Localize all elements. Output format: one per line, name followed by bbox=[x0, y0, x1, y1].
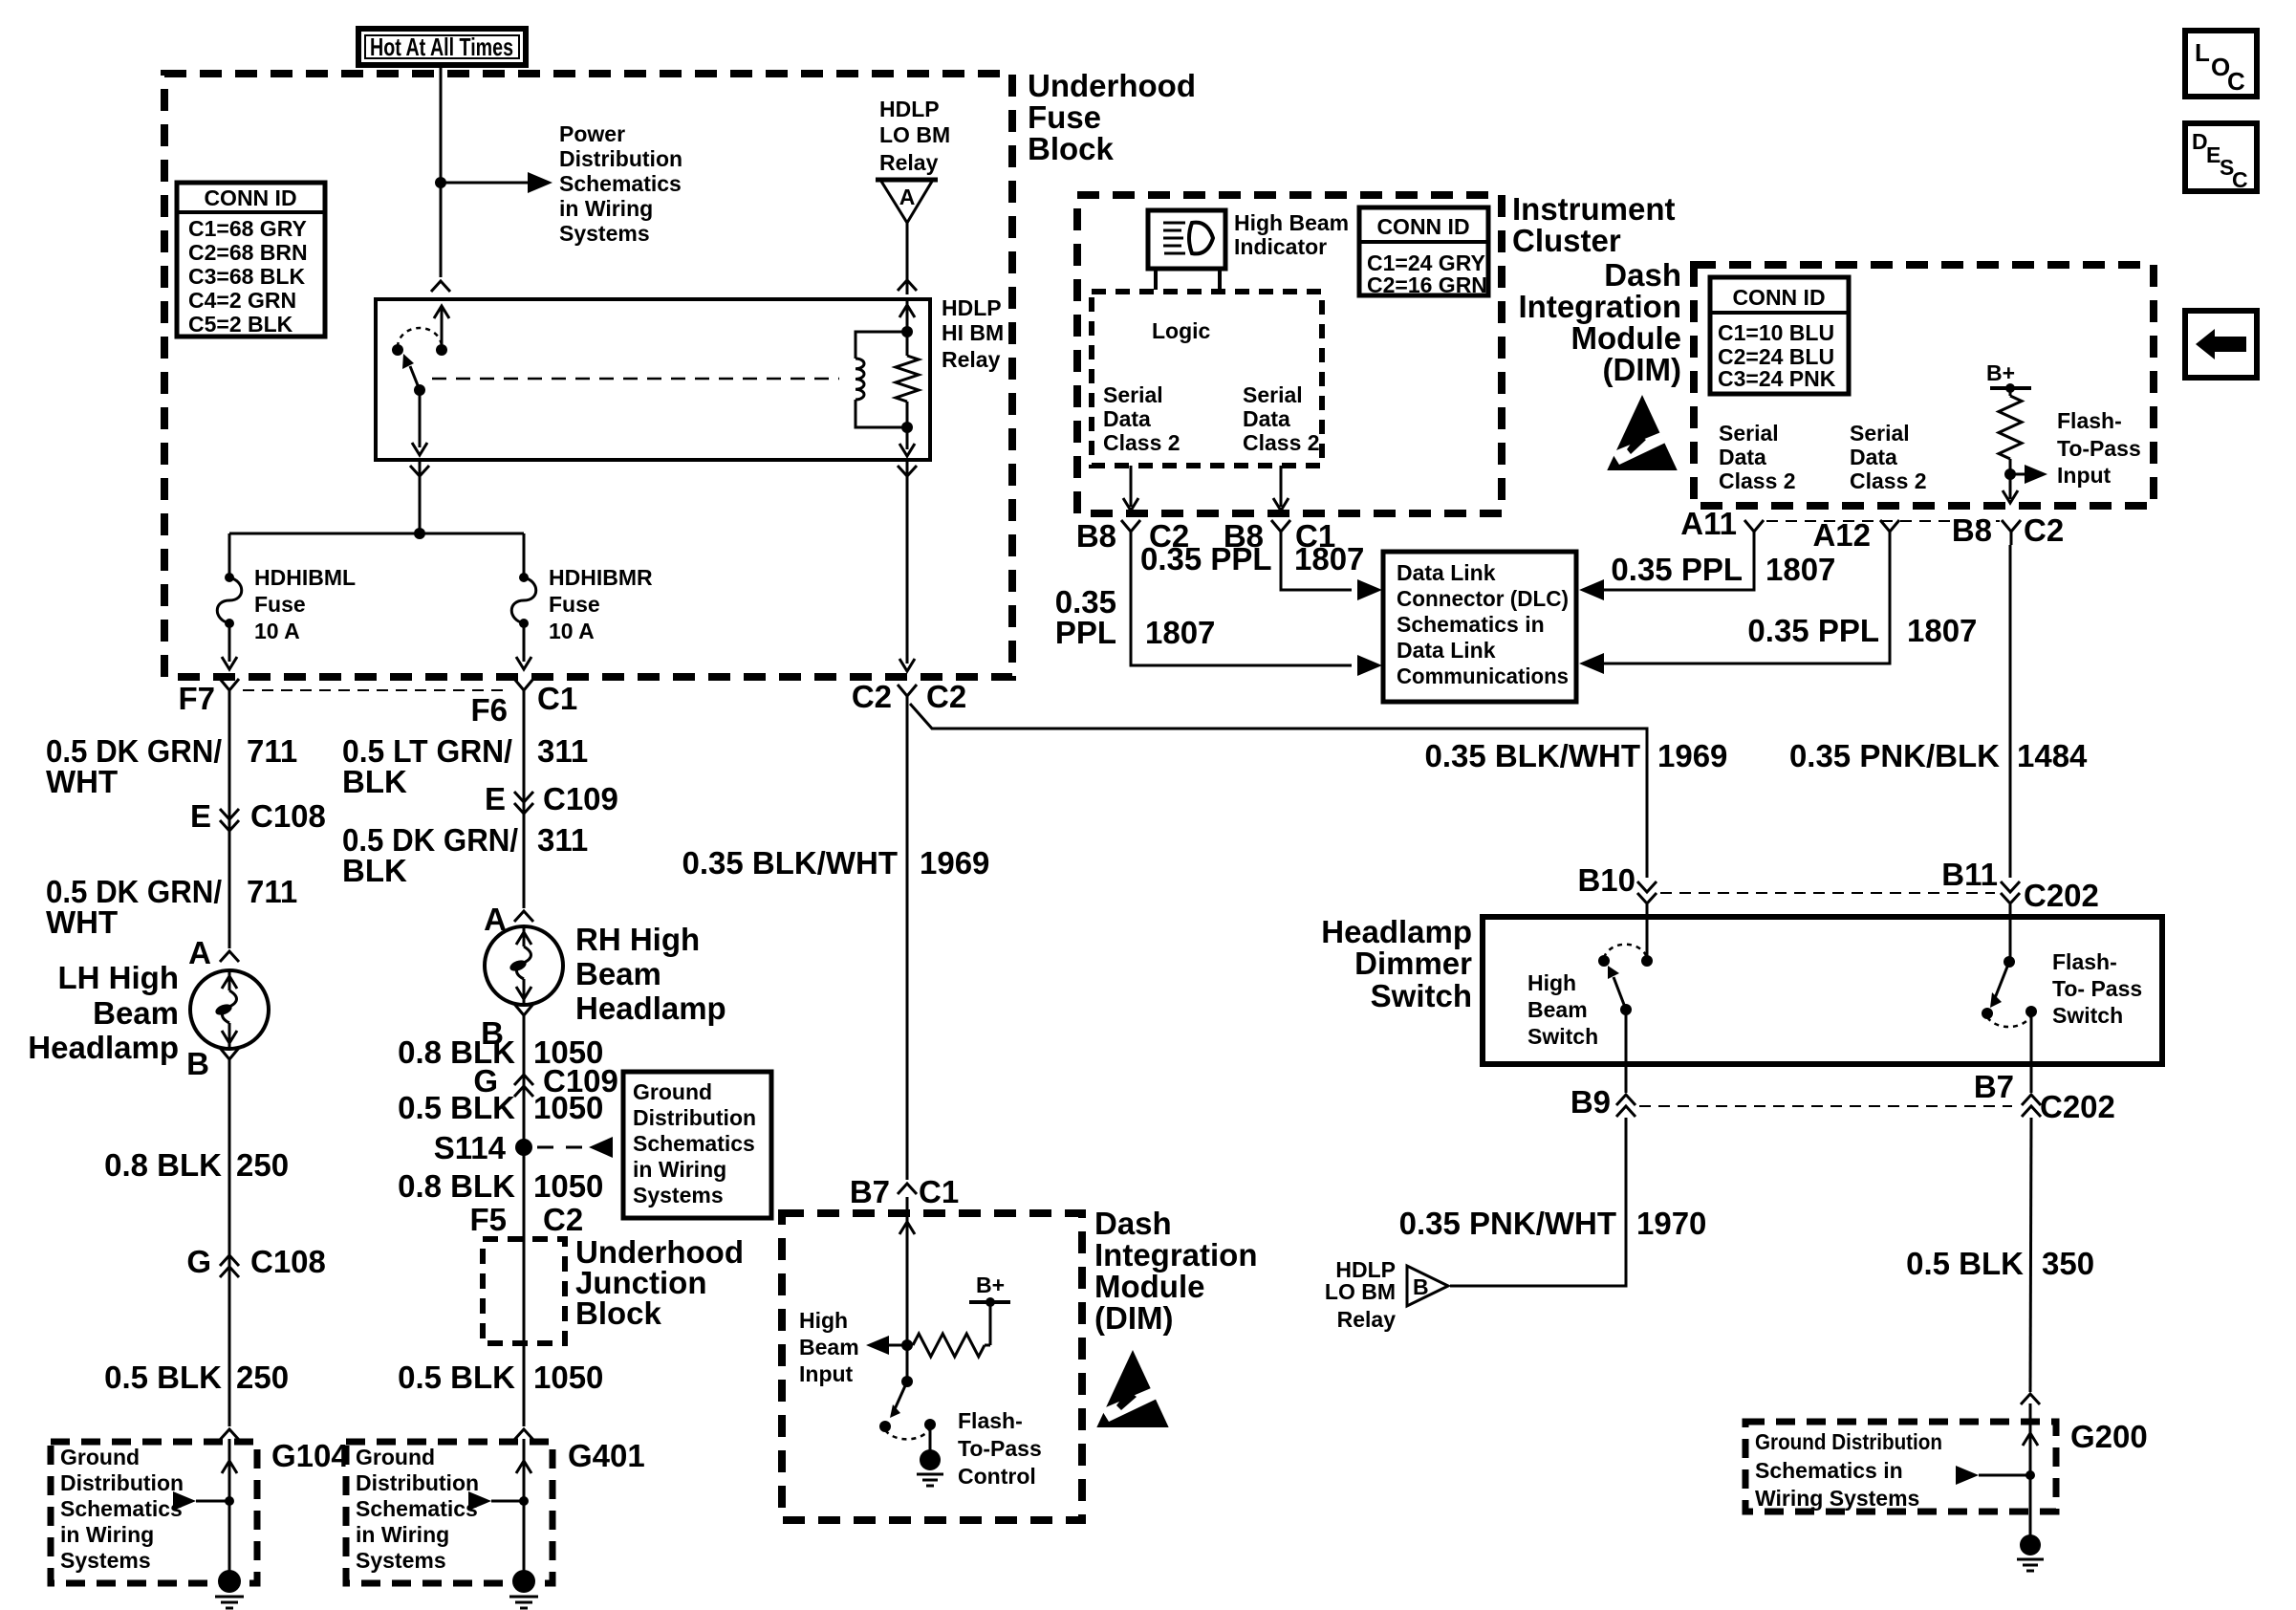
svg-text:High Beam: High Beam bbox=[1234, 210, 1349, 235]
connector F6/C1 (female) bbox=[514, 679, 533, 690]
svg-text:1484: 1484 bbox=[2017, 738, 2088, 773]
Hot At All Times tag bbox=[358, 29, 526, 65]
flash-to-pass switch pivot dot bbox=[901, 1376, 913, 1387]
Ground Distribution dashed box (G200) bbox=[1745, 1422, 2056, 1512]
ground wire (G401) bbox=[523, 1439, 526, 1576]
svg-text:C2: C2 bbox=[852, 679, 892, 714]
connector A12 (DIM) bbox=[1880, 520, 1899, 532]
svg-text:Beam: Beam bbox=[1527, 997, 1588, 1022]
svg-text:Class 2: Class 2 bbox=[1719, 468, 1796, 493]
svg-text:Class 2: Class 2 bbox=[1103, 430, 1180, 455]
svg-text:0.35 PNK/BLK: 0.35 PNK/BLK bbox=[1789, 738, 2000, 773]
svg-text:B: B bbox=[186, 1046, 209, 1081]
svg-text:in Wiring: in Wiring bbox=[559, 196, 653, 221]
connector C2/C2 (fuse block output) bbox=[898, 685, 917, 696]
svg-text:G401: G401 bbox=[568, 1438, 645, 1473]
junction dot bottom of coil/resistor bbox=[901, 422, 913, 433]
junction dot top of coil/resistor bbox=[901, 326, 913, 337]
ground stub (flash-to-pass control) bbox=[929, 1425, 932, 1450]
CONN ID table (Instrument Cluster) bbox=[1359, 207, 1488, 295]
svg-text:Ground Distribution: Ground Distribution bbox=[1755, 1429, 1942, 1454]
svg-text:Beam: Beam bbox=[93, 995, 179, 1031]
wire: fuse feed branch bbox=[229, 533, 524, 535]
back-arrow box bbox=[2185, 311, 2257, 378]
svg-text:0.8 BLK: 0.8 BLK bbox=[398, 1168, 515, 1204]
svg-text:Distribution: Distribution bbox=[60, 1470, 184, 1495]
svg-text:Flash-: Flash- bbox=[958, 1408, 1023, 1433]
fuse HDHIBML bbox=[225, 573, 234, 582]
svg-text:Switch: Switch bbox=[1371, 978, 1472, 1013]
svg-text:G104: G104 bbox=[271, 1438, 349, 1473]
wire: relay A to HI BM relay box bbox=[906, 223, 909, 294]
arrow to Power Distribution Schematics bbox=[528, 172, 552, 193]
svg-text:Distribution: Distribution bbox=[559, 146, 682, 171]
svg-text:350: 350 bbox=[2042, 1246, 2094, 1281]
svg-text:0.35 PPL: 0.35 PPL bbox=[1140, 541, 1272, 577]
wire: relay switch output down bbox=[419, 390, 422, 447]
wire: DIM A11 serial data to DLC bbox=[1579, 579, 1604, 600]
wire: switch output to fuse branch bbox=[419, 460, 422, 533]
svg-text:Module: Module bbox=[1571, 320, 1681, 356]
svg-text:in Wiring: in Wiring bbox=[60, 1522, 154, 1547]
svg-text:BLK: BLK bbox=[342, 853, 407, 888]
svg-text:Ground: Ground bbox=[60, 1445, 140, 1469]
svg-text:(DIM): (DIM) bbox=[1094, 1300, 1173, 1336]
svg-text:1807: 1807 bbox=[1145, 615, 1215, 650]
ground terminal G200 bbox=[2020, 1534, 2041, 1556]
svg-text:1050: 1050 bbox=[533, 1090, 603, 1125]
svg-text:C: C bbox=[2227, 67, 2245, 96]
svg-text:WHT: WHT bbox=[46, 904, 118, 940]
wire: serial data to B8/C1 bbox=[1280, 466, 1283, 507]
svg-text:Module: Module bbox=[1094, 1269, 1204, 1304]
svg-text:0.35 BLK/WHT: 0.35 BLK/WHT bbox=[1424, 738, 1640, 773]
Dash Integration Module dashed box (bottom) bbox=[782, 1213, 1082, 1520]
svg-text:0.5 BLK: 0.5 BLK bbox=[1906, 1246, 2024, 1281]
svg-text:Fuse: Fuse bbox=[1028, 99, 1101, 135]
svg-text:Systems: Systems bbox=[60, 1548, 151, 1573]
flash-to-pass switch contact dots bbox=[1982, 1008, 1993, 1019]
Underhood Junction Block dashed box bbox=[483, 1239, 565, 1343]
svg-text:Data: Data bbox=[1719, 445, 1766, 469]
connector chevron B7/C1 bbox=[898, 1184, 917, 1194]
svg-text:Distribution: Distribution bbox=[633, 1105, 756, 1130]
svg-text:Input: Input bbox=[799, 1361, 854, 1386]
connector A11 (DIM) bbox=[1744, 520, 1764, 532]
svg-text:1807: 1807 bbox=[1765, 552, 1835, 587]
connector C108/C109 interface dashed line bbox=[243, 689, 510, 691]
svg-text:Ground: Ground bbox=[356, 1445, 435, 1469]
svg-text:Schematics in: Schematics in bbox=[1755, 1458, 1903, 1483]
svg-text:RH High: RH High bbox=[575, 922, 700, 957]
svg-text:HDHIBML: HDHIBML bbox=[254, 565, 356, 590]
svg-text:1970: 1970 bbox=[1636, 1206, 1706, 1241]
wire: 0.35 BLK/WHT 1969 to DIM B7 bbox=[906, 709, 909, 1180]
svg-text:Headlamp: Headlamp bbox=[1321, 914, 1472, 949]
relay switch fixed contact dot bbox=[436, 344, 447, 356]
wire: branch to headlamp dimmer switch B10 bbox=[910, 704, 1647, 878]
svg-text:C2=16 GRN: C2=16 GRN bbox=[1367, 272, 1487, 297]
svg-text:B7: B7 bbox=[850, 1174, 890, 1209]
wire: HDHIBMR fuse output bbox=[523, 623, 526, 662]
svg-text:Flash-: Flash- bbox=[2052, 949, 2117, 974]
svg-text:250: 250 bbox=[236, 1147, 289, 1183]
relay coil branch wiring bbox=[856, 332, 907, 359]
svg-text:Dash: Dash bbox=[1094, 1206, 1172, 1241]
wire: 0.35 PNK/BLK 1484 to dimmer switch B11 bbox=[2009, 545, 2012, 878]
svg-text:1969: 1969 bbox=[920, 845, 989, 881]
svg-text:C1: C1 bbox=[537, 681, 577, 716]
svg-text:C1: C1 bbox=[919, 1174, 959, 1209]
svg-text:Relay: Relay bbox=[942, 347, 1001, 372]
dashed travel arc (flash-to-pass control) bbox=[885, 1428, 930, 1439]
fuse HDHIBMR bbox=[519, 573, 529, 582]
svg-text:711: 711 bbox=[247, 733, 297, 769]
svg-text:Integration: Integration bbox=[1094, 1237, 1258, 1273]
wire: flash-to-pass switch output bbox=[2030, 1012, 2033, 1093]
relay switch pivot dot bbox=[414, 384, 425, 396]
Headlamp Dimmer Switch box bbox=[1483, 917, 2162, 1064]
HDLP LO BM Relay terminal A triangle bbox=[880, 180, 933, 223]
svg-text:Dash: Dash bbox=[1604, 257, 1681, 293]
svg-text:0.5 BLK: 0.5 BLK bbox=[104, 1360, 222, 1395]
connector C202 dashed line (top) bbox=[1660, 892, 1995, 894]
svg-text:Switch: Switch bbox=[2052, 1003, 2123, 1028]
connector chevron at RH headlamp A bbox=[514, 911, 533, 922]
svg-text:LO BM: LO BM bbox=[1325, 1279, 1396, 1304]
svg-text:0.35 PPL: 0.35 PPL bbox=[1611, 552, 1743, 587]
connector chevron above G200 bbox=[2021, 1394, 2040, 1404]
DESC reference box bbox=[2185, 123, 2257, 191]
svg-text:Hot At All Times: Hot At All Times bbox=[370, 33, 513, 61]
svg-text:Systems: Systems bbox=[559, 221, 650, 246]
wire: serial data to B8/C2 bbox=[1130, 466, 1133, 507]
svg-text:0.5 BLK: 0.5 BLK bbox=[398, 1360, 515, 1395]
svg-text:Data: Data bbox=[1243, 406, 1290, 431]
wire: HDHIBML fuse output bbox=[228, 623, 231, 662]
splice S114 bbox=[515, 1139, 532, 1156]
Underhood Fuse Block dashed enclosure bbox=[164, 74, 1012, 677]
svg-text:Beam: Beam bbox=[575, 956, 661, 991]
Dash Integration Module dashed box (right) bbox=[1694, 265, 2154, 506]
svg-text:C109: C109 bbox=[543, 781, 618, 816]
svg-text:C2: C2 bbox=[926, 679, 966, 714]
svg-text:1050: 1050 bbox=[533, 1168, 603, 1204]
svg-text:Indicator: Indicator bbox=[1234, 234, 1327, 259]
svg-text:F6: F6 bbox=[470, 692, 508, 728]
svg-text:Serial: Serial bbox=[1850, 421, 1910, 446]
svg-text:C108: C108 bbox=[250, 1244, 326, 1279]
wire: DIM A12 serial data to DLC bbox=[1579, 653, 1604, 674]
svg-text:C5=2 BLK: C5=2 BLK bbox=[188, 312, 293, 337]
svg-text:C3=68 BLK: C3=68 BLK bbox=[188, 264, 305, 289]
svg-text:A: A bbox=[188, 935, 211, 970]
relay switch NO contact dot bbox=[392, 344, 403, 356]
svg-text:B8: B8 bbox=[1952, 512, 1992, 548]
HDLP LO BM Relay terminal B triangle bbox=[1407, 1266, 1448, 1306]
connector at LH headlamp B bbox=[220, 1048, 239, 1059]
svg-text:C2: C2 bbox=[2024, 512, 2064, 548]
dashed travel arc of relay switch bbox=[398, 328, 442, 347]
svg-text:Schematics in: Schematics in bbox=[1397, 612, 1545, 637]
wire: 0.35 PPL 1807 from cluster C2 to DLC bbox=[1131, 545, 1352, 665]
svg-text:Class 2: Class 2 bbox=[1243, 430, 1320, 455]
svg-text:Fuse: Fuse bbox=[254, 592, 306, 617]
svg-text:A: A bbox=[899, 185, 916, 209]
wire: RH headlamp ground leg bbox=[523, 1029, 526, 1426]
connector B8/C2 (DIM) bbox=[2002, 520, 2021, 532]
wire: 0.8 BLK 250 / 0.5 BLK 250 ground leg bbox=[228, 1073, 231, 1426]
connector B9 (C202) bbox=[1616, 1095, 1635, 1105]
svg-text:Integration: Integration bbox=[1519, 289, 1682, 324]
svg-text:A12: A12 bbox=[1812, 517, 1871, 553]
Ground Distribution Schematics note box (S114) bbox=[623, 1072, 771, 1218]
svg-text:B: B bbox=[1413, 1274, 1429, 1299]
svg-text:Schematics: Schematics bbox=[633, 1131, 755, 1156]
svg-text:Logic: Logic bbox=[1152, 318, 1211, 343]
svg-text:Serial: Serial bbox=[1103, 382, 1163, 407]
wire: drop to HDHIBMR fuse bbox=[523, 533, 526, 577]
svg-text:B8: B8 bbox=[1076, 518, 1116, 554]
connector B8/C2 (cluster) bbox=[1121, 520, 1140, 532]
svg-text:C202: C202 bbox=[2024, 878, 2099, 913]
svg-text:10 A: 10 A bbox=[254, 619, 300, 643]
svg-text:1807: 1807 bbox=[1294, 541, 1364, 577]
svg-text:CONN ID: CONN ID bbox=[204, 185, 296, 210]
high beam switch contact dots bbox=[1641, 955, 1653, 967]
svg-text:Distribution: Distribution bbox=[356, 1470, 479, 1495]
RH High Beam Headlamp bulb bbox=[485, 926, 563, 1005]
wire: 0.5 LT GRN/BLK 311 upper segment bbox=[523, 704, 526, 908]
connector chevron above G104 bbox=[220, 1429, 239, 1440]
arrow to ground wire (G401) bbox=[468, 1491, 491, 1511]
CONN ID table (DIM) bbox=[1710, 277, 1849, 394]
svg-text:Serial: Serial bbox=[1243, 382, 1303, 407]
svg-text:Schematics: Schematics bbox=[559, 171, 682, 196]
junction dot (G200) bbox=[2025, 1470, 2035, 1480]
svg-text:F7: F7 bbox=[178, 681, 215, 716]
svg-text:LO BM: LO BM bbox=[879, 122, 950, 147]
svg-text:Class 2: Class 2 bbox=[1850, 468, 1927, 493]
svg-text:Headlamp: Headlamp bbox=[28, 1030, 179, 1065]
svg-text:S114: S114 bbox=[434, 1130, 507, 1165]
svg-text:HI BM: HI BM bbox=[942, 320, 1004, 345]
dashed reference from S114 to ground distribution note bbox=[537, 1146, 583, 1149]
svg-text:B7: B7 bbox=[1974, 1069, 2014, 1104]
LH High Beam Headlamp bulb bbox=[190, 970, 269, 1049]
connector G C109 bbox=[514, 1075, 533, 1085]
connector chevron at LH headlamp A bbox=[220, 951, 239, 962]
svg-text:C1=68 GRY: C1=68 GRY bbox=[188, 216, 307, 241]
svg-text:To-Pass: To-Pass bbox=[958, 1436, 1042, 1461]
svg-text:Beam: Beam bbox=[799, 1335, 859, 1360]
svg-text:0.35 PPL: 0.35 PPL bbox=[1747, 613, 1879, 648]
wire: high beam input inside DIM bbox=[906, 1197, 909, 1382]
High Beam Indicator icon bbox=[1148, 210, 1225, 269]
svg-text:Control: Control bbox=[958, 1464, 1036, 1489]
connector at RH headlamp B bbox=[514, 1004, 533, 1015]
svg-text:in Wiring: in Wiring bbox=[633, 1157, 726, 1182]
wire: B11 into switch bbox=[2009, 904, 2012, 962]
arrow: high beam input signal bbox=[888, 1344, 907, 1347]
svg-text:To-Pass: To-Pass bbox=[2057, 436, 2141, 461]
connector G C108 bbox=[220, 1255, 239, 1266]
junction dot on battery feed bbox=[435, 177, 446, 188]
svg-text:A11: A11 bbox=[1680, 506, 1737, 541]
svg-text:High: High bbox=[1527, 970, 1576, 995]
svg-text:C3=24 PNK: C3=24 PNK bbox=[1718, 366, 1836, 391]
svg-text:G: G bbox=[186, 1244, 211, 1279]
svg-text:Data Link: Data Link bbox=[1397, 560, 1496, 585]
svg-text:Switch: Switch bbox=[1527, 1024, 1598, 1049]
svg-text:Headlamp: Headlamp bbox=[575, 990, 726, 1026]
svg-text:B11: B11 bbox=[1941, 857, 1998, 892]
arrow to ground wire (G200) bbox=[1956, 1466, 1979, 1485]
svg-text:1969: 1969 bbox=[1657, 738, 1727, 773]
svg-text:B10: B10 bbox=[1577, 862, 1635, 898]
svg-text:Data: Data bbox=[1850, 445, 1897, 469]
svg-text:B9: B9 bbox=[1570, 1084, 1611, 1120]
svg-text:LH High: LH High bbox=[58, 960, 179, 995]
junction dot high beam input bbox=[901, 1339, 913, 1351]
connector chevron below relay box (switch side) bbox=[410, 466, 429, 476]
svg-text:711: 711 bbox=[247, 874, 297, 909]
connector C202 dashed line (bottom) bbox=[1639, 1105, 2012, 1107]
svg-text:CONN ID: CONN ID bbox=[1376, 214, 1469, 239]
svg-text:WHT: WHT bbox=[46, 764, 118, 799]
svg-text:C108: C108 bbox=[250, 798, 326, 834]
relay coil feed wire (inside box right) bbox=[906, 299, 909, 332]
wire: flash-to-pass to B8/C2 bbox=[2009, 474, 2012, 499]
relay switch common wire (inside box) bbox=[441, 308, 444, 350]
connector chevron below relay box (coil side) bbox=[898, 466, 917, 476]
svg-text:Connector (DLC): Connector (DLC) bbox=[1397, 586, 1569, 611]
svg-text:1807: 1807 bbox=[1907, 613, 1977, 648]
svg-text:Instrument: Instrument bbox=[1512, 191, 1676, 227]
wire: drop to HDHIBML fuse bbox=[228, 533, 231, 577]
Ground Distribution dashed box (G104) bbox=[51, 1442, 257, 1583]
connector B7 (C202) bbox=[2022, 1095, 2041, 1105]
wire: branch to power distribution schematics bbox=[441, 182, 535, 185]
ESD sensitivity symbol (DIM bottom) bbox=[1096, 1350, 1168, 1427]
flash-to-pass pull-up resistor bbox=[2009, 388, 2012, 396]
svg-text:Relay: Relay bbox=[1337, 1307, 1397, 1332]
connector B10 (C202) bbox=[1637, 881, 1657, 892]
svg-text:B+: B+ bbox=[1986, 360, 2015, 385]
svg-text:F5: F5 bbox=[469, 1202, 507, 1237]
svg-text:PPL: PPL bbox=[1055, 615, 1116, 650]
svg-text:BLK: BLK bbox=[342, 764, 407, 799]
flash-to-pass switch top contact dot bbox=[2004, 956, 2015, 968]
svg-text:Data Link: Data Link bbox=[1397, 638, 1496, 663]
svg-text:Ground: Ground bbox=[633, 1079, 712, 1104]
svg-text:C4=2 GRN: C4=2 GRN bbox=[188, 288, 296, 313]
arrow: flash-to-pass input signal bbox=[2010, 473, 2026, 476]
svg-text:High: High bbox=[799, 1308, 848, 1333]
svg-text:Flash-: Flash- bbox=[2057, 408, 2122, 433]
svg-text:B+: B+ bbox=[976, 1273, 1005, 1297]
wire: B10 into switch bbox=[1646, 904, 1649, 961]
svg-text:Systems: Systems bbox=[356, 1548, 446, 1573]
ground wire (G104) bbox=[228, 1439, 231, 1576]
dashed travel arc (high beam switch) bbox=[1604, 945, 1647, 958]
svg-text:C202: C202 bbox=[2040, 1089, 2115, 1124]
dashed mechanical linkage between switch and coil bbox=[432, 378, 839, 381]
connector dashed line (DIM pins) bbox=[1766, 520, 2000, 522]
LOC reference box bbox=[2185, 31, 2257, 97]
svg-text:250: 250 bbox=[236, 1360, 289, 1395]
svg-text:Input: Input bbox=[2057, 463, 2112, 488]
svg-text:Block: Block bbox=[575, 1295, 662, 1331]
svg-text:L: L bbox=[2195, 38, 2210, 67]
connector B8/C1 (cluster) bbox=[1271, 520, 1290, 532]
wire: 0.5 DK GRN/WHT 711 upper segment bbox=[228, 704, 231, 948]
connector chevron at fuse box entry bbox=[898, 280, 917, 291]
svg-text:Relay: Relay bbox=[879, 150, 939, 175]
svg-text:0.35 BLK/WHT: 0.35 BLK/WHT bbox=[682, 845, 898, 881]
svg-text:C: C bbox=[2232, 167, 2248, 192]
svg-text:0.8 BLK: 0.8 BLK bbox=[104, 1147, 222, 1183]
coil return wiring bbox=[856, 400, 907, 427]
Ground Distribution dashed box (G401) bbox=[346, 1442, 552, 1583]
svg-text:C1=10 BLU: C1=10 BLU bbox=[1718, 320, 1834, 345]
high beam switch blade bbox=[1614, 977, 1626, 1010]
pull-up resistor (DIM) bbox=[913, 1334, 985, 1357]
svg-text:C2=68 BRN: C2=68 BRN bbox=[188, 240, 308, 265]
junction dot flash-to-pass input bbox=[2004, 468, 2016, 480]
svg-text:Schematics: Schematics bbox=[356, 1496, 478, 1521]
svg-text:Power: Power bbox=[559, 121, 625, 146]
svg-text:Dimmer: Dimmer bbox=[1354, 946, 1472, 981]
wire: 0.5 BLK 350 to G200 bbox=[2030, 1118, 2031, 1392]
wire: HI BM relay output to C2 bbox=[906, 460, 909, 664]
svg-text:Communications: Communications bbox=[1397, 664, 1569, 688]
svg-text:Systems: Systems bbox=[633, 1183, 724, 1207]
svg-text:HDLP: HDLP bbox=[942, 295, 1002, 320]
high beam switch pivot dot bbox=[1620, 1004, 1632, 1015]
svg-text:Cluster: Cluster bbox=[1512, 223, 1621, 258]
svg-text:0.5 BLK: 0.5 BLK bbox=[398, 1090, 515, 1125]
wire: battery feed from Hot At All Times bbox=[440, 65, 443, 277]
HDLP HI BM Relay box bbox=[376, 299, 930, 460]
junction dot fuse branch bbox=[414, 528, 425, 539]
svg-text:To- Pass: To- Pass bbox=[2052, 976, 2142, 1001]
wire: 0.35 PPL 1807 from cluster C1 to DLC bbox=[1281, 545, 1352, 590]
ground terminal G401 bbox=[512, 1570, 535, 1593]
svg-text:Data: Data bbox=[1103, 406, 1151, 431]
svg-text:E: E bbox=[190, 798, 211, 834]
svg-text:0.35 PNK/WHT: 0.35 PNK/WHT bbox=[1399, 1206, 1616, 1241]
flash-to-pass control blade bbox=[895, 1382, 907, 1409]
relay switch blade with arrow bbox=[410, 366, 420, 390]
arrow to ground wire (G104) bbox=[173, 1491, 196, 1511]
svg-text:G200: G200 bbox=[2070, 1419, 2148, 1454]
connector E C108 bbox=[220, 809, 239, 819]
flash-to-pass switch blade bbox=[1995, 962, 2009, 998]
flash-to-pass contact dots bbox=[879, 1421, 891, 1432]
connector chevron above G401 bbox=[514, 1429, 533, 1440]
svg-text:(DIM): (DIM) bbox=[1603, 352, 1681, 387]
connector F7 (female) bbox=[220, 679, 239, 690]
svg-text:E: E bbox=[485, 781, 506, 816]
ESD sensitivity symbol (DIM right) bbox=[1607, 395, 1677, 470]
svg-text:Schematics: Schematics bbox=[60, 1496, 183, 1521]
svg-text:311: 311 bbox=[537, 822, 588, 858]
svg-text:Underhood: Underhood bbox=[1028, 68, 1196, 103]
connector B11 (C202) bbox=[2001, 881, 2020, 892]
svg-text:Serial: Serial bbox=[1719, 421, 1779, 446]
svg-text:Fuse: Fuse bbox=[549, 592, 600, 617]
